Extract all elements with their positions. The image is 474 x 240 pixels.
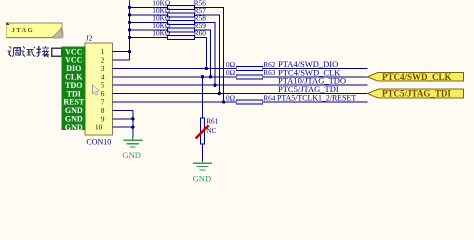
wire VCC bus vertical bbox=[129, 5, 131, 60]
wire gnd vertical bbox=[132, 110, 134, 136]
resistor R62 bbox=[226, 60, 276, 71]
resistor R56 bbox=[152, 0, 206, 9]
junction gnd vertical/pin10 wire bbox=[131, 126, 134, 129]
wire R59 feed bbox=[130, 29, 168, 31]
wire R57 feed bbox=[130, 14, 168, 16]
wire R56 feed bbox=[130, 6, 168, 8]
junction R58 pullup on TDO row bbox=[213, 84, 216, 87]
svg-text:PTC5/JTAG_TDI: PTC5/JTAG_TDI bbox=[382, 89, 451, 99]
wire R61 drop bbox=[202, 77, 204, 118]
resistor R61 (NC) bbox=[196, 117, 219, 144]
svg-text:10: 10 bbox=[95, 123, 103, 132]
wire R56 out bbox=[195, 7, 224, 102]
pin names bbox=[63, 47, 85, 132]
wire R61 to gnd bbox=[202, 144, 204, 162]
svg-text:0Ω: 0Ω bbox=[226, 93, 236, 102]
wire R57 out bbox=[195, 15, 220, 94]
junction bus/R59 feed bbox=[128, 28, 131, 31]
NC red slash bbox=[196, 126, 209, 139]
svg-text:PTC4/SWD_CLK: PTC4/SWD_CLK bbox=[382, 72, 452, 82]
junction gnd vertical/pin9 wire bbox=[131, 117, 134, 120]
svg-text:GND: GND bbox=[65, 123, 83, 132]
label 调试接口 (drawn glyphs) bbox=[7, 46, 61, 57]
resistor R57 bbox=[152, 6, 206, 17]
试 bbox=[21, 46, 35, 56]
wire row4 CLK bbox=[113, 76, 368, 78]
svg-text:R64: R64 bbox=[263, 93, 276, 102]
wire pin1 bbox=[113, 51, 130, 53]
pin numbers bbox=[95, 47, 105, 132]
wire row6 TDI bbox=[113, 93, 368, 95]
junction bus/pin1 wire bbox=[128, 50, 131, 53]
wire R60 feed bbox=[130, 36, 168, 38]
svg-text:R61: R61 bbox=[206, 117, 219, 126]
svg-text:GND: GND bbox=[193, 173, 212, 183]
junction R59 pullup on CLK row bbox=[209, 75, 212, 78]
wire R58 out bbox=[195, 22, 216, 85]
resistor R59 bbox=[152, 21, 206, 32]
junction bus/R58 feed bbox=[128, 21, 131, 24]
wire VCC stub (red) bbox=[129, 0, 131, 5]
调 bbox=[7, 46, 20, 56]
junction bus/R60 feed bbox=[128, 36, 131, 39]
wire pin9 to gnd bbox=[113, 118, 133, 120]
svg-text:0Ω: 0Ω bbox=[226, 68, 236, 77]
wire row3 DIO bbox=[113, 67, 368, 69]
接 bbox=[36, 46, 49, 57]
junction R56 pullup on REST row bbox=[222, 100, 225, 103]
wire pin10 to gnd bbox=[113, 126, 133, 128]
port PTC4/SWD CLK bbox=[368, 72, 464, 82]
svg-text:R63: R63 bbox=[263, 68, 276, 77]
svg-text:JTAG: JTAG bbox=[12, 27, 34, 34]
resistor R64 bbox=[226, 93, 276, 104]
connector J2 CON10 bbox=[62, 33, 113, 146]
wire row7 REST bbox=[113, 101, 368, 103]
resistor R60 bbox=[152, 29, 206, 40]
svg-text:10KΩ: 10KΩ bbox=[152, 29, 171, 38]
口 bbox=[52, 48, 62, 56]
ground (under R61) bbox=[193, 162, 212, 171]
body bbox=[85, 43, 112, 135]
wire pin8 to gnd bbox=[113, 109, 133, 111]
cursor bbox=[92, 85, 99, 95]
wire R60 out bbox=[195, 37, 207, 68]
ground (under connector) bbox=[123, 137, 142, 148]
junction bus/R56 feed bbox=[128, 6, 131, 9]
junction R57 pullup on TDI row bbox=[218, 92, 221, 95]
svg-text:CON10: CON10 bbox=[86, 138, 111, 147]
svg-text:GND: GND bbox=[122, 150, 141, 160]
wire pin2 bbox=[113, 59, 130, 61]
junction bus/R57 feed bbox=[128, 13, 131, 16]
port PTC5/JTAG TDI bbox=[368, 89, 464, 99]
wire R59 out bbox=[195, 30, 211, 77]
svg-text:J2: J2 bbox=[86, 33, 93, 42]
svg-text:R60: R60 bbox=[194, 29, 207, 38]
note JTAG bbox=[6, 22, 63, 39]
green pin-name box bbox=[62, 46, 86, 130]
wire row5 TDO bbox=[113, 84, 368, 86]
junction R60 pullup on DIO row bbox=[205, 67, 208, 70]
resistor R58 bbox=[152, 14, 206, 25]
svg-text:PTA5/TCLK1_2/RESET: PTA5/TCLK1_2/RESET bbox=[277, 94, 356, 103]
wire R58 feed bbox=[130, 21, 168, 23]
resistor R63 bbox=[226, 68, 276, 79]
junction R61 branch on CLK row bbox=[201, 75, 204, 78]
